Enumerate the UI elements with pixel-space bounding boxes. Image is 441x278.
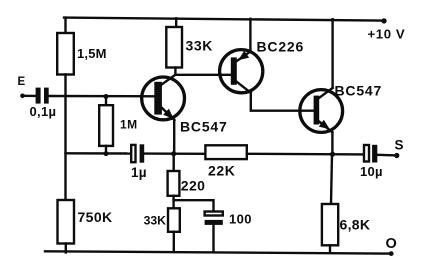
- wire: Q1 collector node to Q2 base: [175, 74, 230, 76]
- svg-text:6,8K: 6,8K: [340, 217, 371, 233]
- resistor R8 6,8K: [322, 204, 338, 245]
- resistor R6 220: [168, 171, 180, 196]
- svg-text:22K: 22K: [208, 163, 235, 179]
- svg-text:BC547: BC547: [180, 119, 228, 135]
- svg-text:33K: 33K: [186, 38, 213, 54]
- wire: 1M bottom lead: [105, 146, 107, 154]
- wire: rail drop to Q2 emitter: [249, 19, 251, 52]
- wire: R1 bottom down to 750K top (through base node and y153 tee): [64, 75, 66, 201]
- svg-text:O: O: [386, 236, 397, 252]
- resistor R3 1M: [99, 105, 113, 146]
- wire: ground bottom rail: [45, 251, 391, 253]
- wire: 22K right to output node and C4: [247, 153, 364, 156]
- wire: +10V top rail: [64, 18, 383, 21]
- wire: tap to C3: [174, 200, 214, 211]
- node: +10V terminal dot: [381, 18, 386, 23]
- node: junction dot output node: [330, 152, 335, 157]
- wire: Q3 collector up to rail: [331, 19, 333, 88]
- resistor R4 33K (collector): [166, 27, 182, 68]
- svg-text:220: 220: [181, 177, 206, 193]
- capacitor C3 100 plates: [205, 212, 223, 216]
- wire: C3 to ground: [212, 225, 214, 252]
- wire: C2 to emitter node: [144, 152, 174, 154]
- resistor R1 1,5M: [57, 33, 74, 75]
- svg-text:100: 100: [229, 211, 252, 226]
- node: junction dot emitter node: [171, 151, 176, 156]
- transistor Q2 BC226: [220, 50, 263, 93]
- wire: rail drop to R4 33K: [175, 18, 177, 27]
- capacitor C1 0,1u plates: [36, 88, 41, 104]
- wire: C1 to Q1 base: [49, 95, 155, 98]
- resistor R5 22K: [205, 145, 246, 159]
- svg-text:0,1µ: 0,1µ: [30, 104, 57, 119]
- wire: Q3 emitter down to output node: [331, 132, 333, 154]
- wire: emitter node to R5 22K: [174, 152, 206, 155]
- wire: E terminal to C1: [23, 95, 36, 97]
- node: ground terminal dot: [389, 251, 394, 256]
- svg-text:S: S: [395, 137, 404, 152]
- wire: 220 bottom to 33K top with tap: [172, 196, 174, 209]
- svg-text:750K: 750K: [78, 209, 113, 225]
- svg-text:10µ: 10µ: [360, 164, 383, 179]
- svg-text:BC547: BC547: [335, 83, 383, 99]
- capacitor C4 10u plates: [364, 145, 369, 162]
- transistor Q1 BC547: [142, 75, 185, 121]
- wire: output node down to 6,8K: [331, 154, 332, 204]
- wire: 750K to ground rail: [65, 244, 67, 253]
- svg-text:33K: 33K: [144, 214, 167, 228]
- wire: C4 to output terminal S: [377, 154, 395, 157]
- transistor Q3 BC547: [300, 88, 343, 132]
- svg-text:+10 V: +10 V: [368, 27, 406, 42]
- node: output terminal S dot: [394, 153, 399, 158]
- svg-text:1M: 1M: [120, 118, 137, 132]
- node: junction dot 1M bottom: [104, 151, 109, 156]
- wire: 33K bottom lead to Q1 collector node: [174, 68, 176, 75]
- wire: 33K bottom to ground: [173, 232, 175, 252]
- wire: Q1 emitter down to emitter node: [173, 120, 175, 154]
- capacitor C2 1u plates: [131, 145, 135, 162]
- wire: y153 wire from divider to C2: [66, 152, 132, 155]
- svg-text:E: E: [18, 76, 26, 88]
- node: junction dot base/1M top: [104, 94, 109, 99]
- wire: rail drop to R1: [64, 18, 66, 33]
- resistor R2 750K: [58, 200, 75, 244]
- wire: Q2 collector down and to Q3 base: [251, 93, 314, 111]
- svg-text:1µ: 1µ: [131, 165, 147, 180]
- wire: 6,8K to ground rail: [329, 245, 331, 253]
- node: input terminal E dot: [20, 94, 25, 99]
- svg-text:1,5M: 1,5M: [77, 46, 107, 61]
- wire: 220 top lead: [172, 154, 174, 171]
- resistor R7 33K (emitter): [168, 208, 180, 232]
- svg-text:BC226: BC226: [257, 39, 305, 55]
- wire: 1M top lead: [105, 97, 107, 106]
